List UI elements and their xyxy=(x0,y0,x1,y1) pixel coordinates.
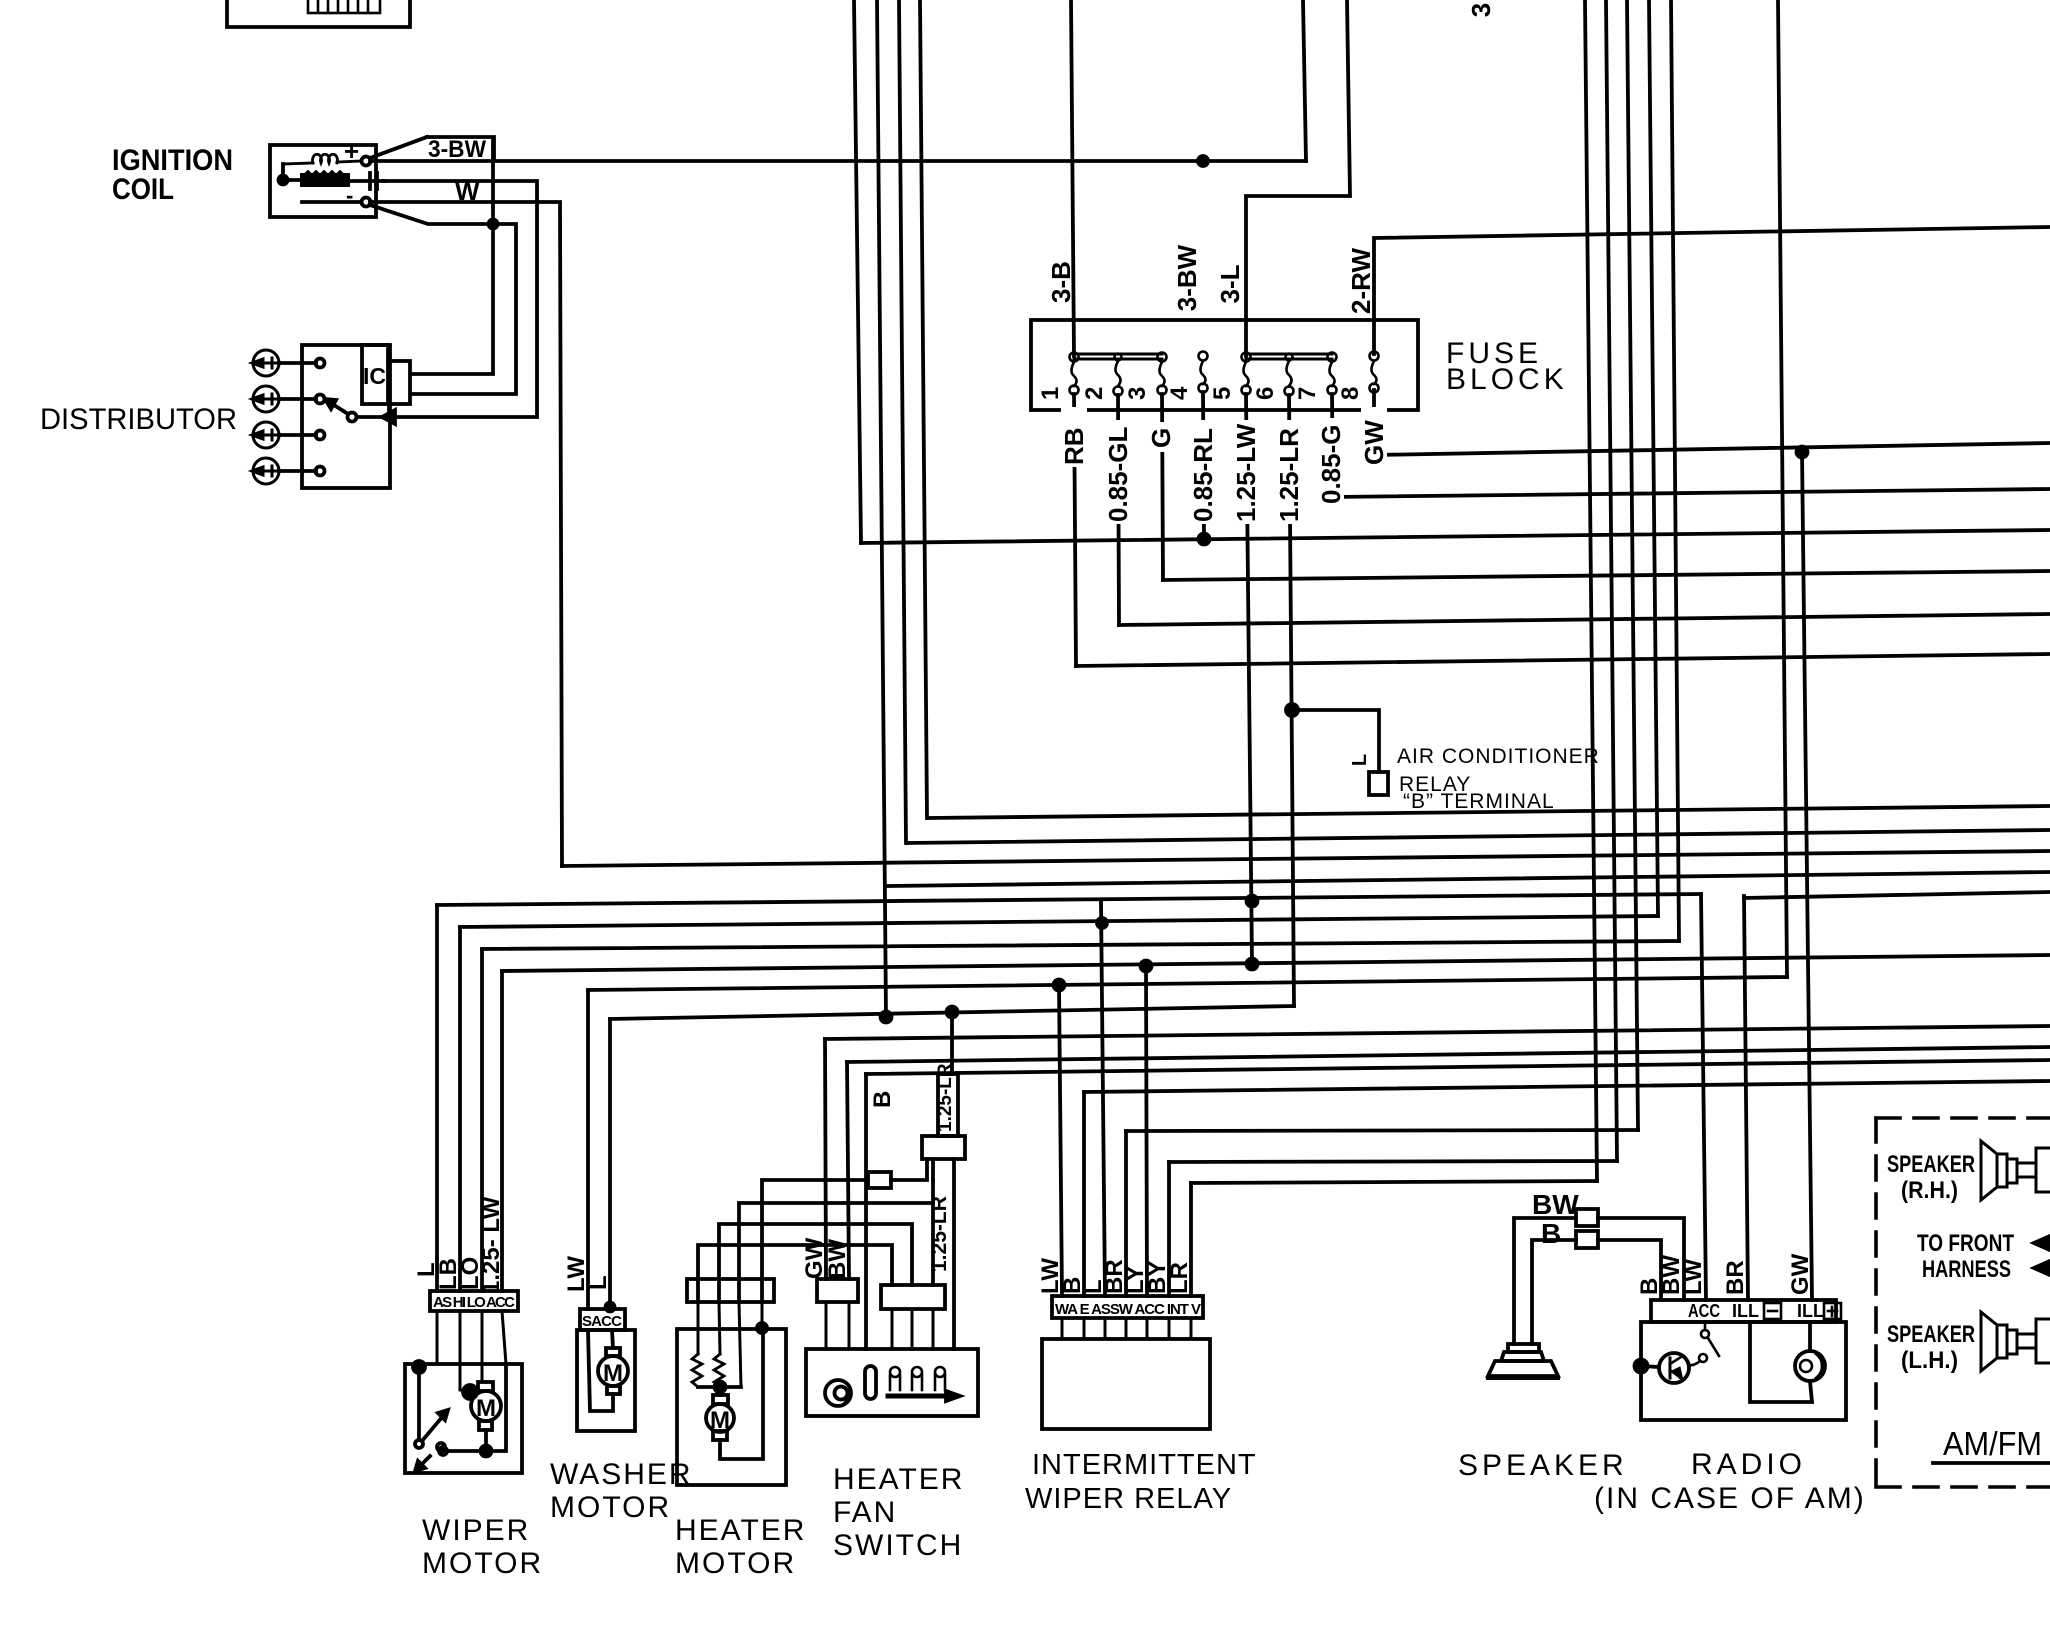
junction wiper bottom xyxy=(481,1446,492,1457)
svg-text:(R.H.): (R.H.) xyxy=(1901,1177,1958,1204)
bus line L16b xyxy=(866,1060,2050,1074)
svg-text:BW: BW xyxy=(824,1239,851,1279)
wiper switch common wire xyxy=(417,1367,421,1440)
fuse numbers 1-8 xyxy=(1037,386,1364,400)
label IGNITION COIL xyxy=(112,144,233,206)
svg-text:HEATER: HEATER xyxy=(833,1463,964,1496)
wire AC relay branch xyxy=(1292,710,1379,772)
svg-text:5: 5 xyxy=(1209,387,1236,400)
svg-text:2: 2 xyxy=(1081,387,1108,400)
speaker RH icon xyxy=(1981,1141,2050,1200)
svg-text:1.25-LR: 1.25-LR xyxy=(928,1196,951,1272)
label HEATER MOTOR xyxy=(675,1514,806,1580)
label B heater xyxy=(869,1091,896,1108)
speaker LH icon xyxy=(1981,1312,2050,1371)
harness arrow 1 xyxy=(2034,1236,2050,1250)
label 3-B xyxy=(1046,261,1076,303)
label TO FRONT HARNESS xyxy=(1917,1230,2014,1283)
svg-text:GW: GW xyxy=(1787,1253,1814,1295)
heater resistor bus xyxy=(698,1385,741,1389)
radio ACC switch xyxy=(1704,1322,1707,1330)
fan switch rotary symbol xyxy=(825,1380,851,1406)
svg-text:TO FRONT: TO FRONT xyxy=(1917,1230,2014,1257)
wire W from minus terminal xyxy=(370,202,562,866)
fan switch contact 3 xyxy=(935,1367,945,1390)
minus terminal xyxy=(346,183,353,208)
wire 3-L from top to fuse 5 xyxy=(1246,0,1350,356)
svg-text:WASHER: WASHER xyxy=(550,1458,693,1491)
coil middle terminal capacitor symbol xyxy=(351,179,384,183)
svg-text:HARNESS: HARNESS xyxy=(1922,1256,2011,1283)
svg-text:MOTOR: MOTOR xyxy=(422,1547,543,1580)
svg-text:BLOCK: BLOCK xyxy=(1446,363,1568,396)
fan switch contact 1 xyxy=(890,1367,900,1390)
fuse 1 xyxy=(1070,353,1079,395)
radio pin labels xyxy=(1636,1253,1814,1295)
wire B box to horn xyxy=(1532,1240,1576,1344)
wire fuse6 1.25-LR down xyxy=(1289,395,1294,1006)
heater motor connector xyxy=(687,1279,774,1302)
wire radio GW vertical xyxy=(1802,452,1812,1300)
wire fuse1 RB down xyxy=(1074,394,1076,666)
right connector stubs xyxy=(892,1309,933,1349)
heater switch GW BW connector xyxy=(817,1279,858,1302)
coil secondary winding xyxy=(301,171,349,186)
label AIR CONDITIONER RELAY B TERMINAL xyxy=(1397,745,1600,813)
svg-text:IC: IC xyxy=(363,363,386,389)
wiper motor bottom wire xyxy=(443,1430,486,1451)
svg-text:4: 4 xyxy=(1166,386,1193,400)
junction heater bus xyxy=(715,1382,726,1393)
fan switch contact 2 xyxy=(912,1367,922,1390)
svg-text:COIL: COIL xyxy=(112,173,174,206)
heater internal pin wires xyxy=(698,1302,762,1387)
fan switch capsule xyxy=(865,1366,876,1399)
wire relay BR to top xyxy=(1126,1130,1638,1131)
bus line B8 xyxy=(502,955,2050,971)
heater fan switch box xyxy=(806,1349,978,1416)
fuse 4 xyxy=(1199,352,1208,393)
spark plug 2 xyxy=(252,386,279,412)
distributor box xyxy=(302,345,390,488)
wire wiper ACC down xyxy=(500,971,504,1291)
junction fuse5 LW on B5 line xyxy=(1247,896,1258,907)
svg-text:SPEAKER: SPEAKER xyxy=(1887,1321,1975,1348)
wire bundle vertical R6 from top xyxy=(1778,0,1787,977)
wire relay B vertical xyxy=(1082,1092,1086,1296)
svg-text:AIR CONDITIONER: AIR CONDITIONER xyxy=(1397,745,1600,768)
svg-text:WIPER RELAY: WIPER RELAY xyxy=(1025,1483,1232,1515)
ILL minus box xyxy=(1764,1303,1781,1319)
relay connector strip xyxy=(1052,1296,1203,1318)
junction dot on IC wire xyxy=(489,220,498,229)
label GW heater xyxy=(801,1237,828,1279)
label WASHER MOTOR xyxy=(550,1458,693,1524)
fuse block right edge implied by label xyxy=(1446,337,1568,396)
svg-text:3-L: 3-L xyxy=(1215,264,1245,303)
svg-text:LW: LW xyxy=(1680,1259,1707,1295)
spark plug 4 xyxy=(252,458,279,484)
wire fuse2 0.85-GL down xyxy=(1118,395,1119,625)
fuse 8 xyxy=(1370,352,1379,393)
wire fuse3 G down xyxy=(1162,394,1163,580)
wire middle terminal to distributor xyxy=(384,181,537,417)
terminal 2 xyxy=(316,395,325,404)
label BW speaker xyxy=(1532,1189,1579,1220)
wiper motor M xyxy=(471,1391,501,1421)
wire bundle vertical R4 from top xyxy=(1649,0,1658,916)
washer internal left wire xyxy=(588,1330,613,1411)
spark plug 1 xyxy=(252,350,279,376)
wire IC power branch xyxy=(412,140,493,374)
svg-text:RADIO: RADIO xyxy=(1691,1448,1806,1481)
junction fuse4 on A1 xyxy=(1199,534,1210,545)
wiper right internal wire xyxy=(486,1364,506,1451)
svg-text:ILL: ILL xyxy=(1797,1301,1824,1321)
wire wide connector left pin down xyxy=(931,1159,935,1285)
bus line A4 xyxy=(1076,654,2050,666)
svg-text:L: L xyxy=(585,1275,612,1290)
svg-text:WIPER: WIPER xyxy=(422,1514,530,1547)
wire relay LR to top xyxy=(1191,1181,1597,1183)
label 3-BW vertical xyxy=(1172,244,1202,311)
svg-text:L: L xyxy=(1349,754,1371,766)
wire bundle vertical V4 from top xyxy=(920,0,927,818)
wire fuse5 1.25-LW down xyxy=(1246,394,1252,964)
bus line B9 xyxy=(588,977,1787,990)
wire L14 tap down to wide connector xyxy=(950,1012,954,1074)
svg-text:+: + xyxy=(344,136,359,166)
svg-text:SWITCH: SWITCH xyxy=(833,1529,963,1562)
heater pin4 wire staircase xyxy=(762,1180,868,1302)
junction radio left edge xyxy=(1635,1360,1648,1373)
junction heater 1.25-LR tap on L14 xyxy=(947,1007,958,1018)
wire bundle vertical V2 from top xyxy=(877,0,886,1017)
fuse bus bar 1-3 xyxy=(1074,354,1162,359)
washer motor top wire xyxy=(612,1330,613,1348)
wiper park arrow xyxy=(421,1456,430,1465)
wiper switch contact a xyxy=(415,1440,423,1448)
radio lamp xyxy=(1795,1351,1825,1381)
wire B box to radio xyxy=(1598,1240,1661,1300)
AC relay terminal box xyxy=(1369,772,1388,795)
hatched connector inside partial box xyxy=(308,0,380,13)
label INTERMITTENT WIPER RELAY xyxy=(1025,1449,1257,1515)
label LB wiper xyxy=(435,1258,462,1290)
label SPEAKER LH xyxy=(1887,1321,1975,1374)
fuse row box xyxy=(1031,320,1418,410)
junction relay LY on B8 xyxy=(1141,961,1152,972)
svg-text:1.25- LW: 1.25- LW xyxy=(478,1196,505,1294)
svg-text:B: B xyxy=(869,1091,896,1108)
svg-text:AM/FM: AM/FM xyxy=(1943,1425,2042,1462)
wire relay LW vertical xyxy=(1059,985,1062,1296)
wire plug2 xyxy=(279,397,316,401)
label L washer xyxy=(585,1275,612,1290)
heater motor M xyxy=(718,1387,722,1395)
wire wiper LO down xyxy=(480,949,484,1291)
svg-text:HEATER: HEATER xyxy=(675,1514,806,1547)
coil case junction dot xyxy=(279,176,288,185)
bus line B6 xyxy=(460,916,1658,927)
wire radio LW vertical xyxy=(1701,894,1706,1300)
svg-text:6: 6 xyxy=(1252,387,1279,400)
wire relay BR vertical xyxy=(1124,1131,1128,1296)
junction heater pin4 top xyxy=(757,1323,767,1333)
wire relay BY to top xyxy=(1169,1161,1617,1162)
wire wiper LB down xyxy=(458,927,462,1291)
svg-text:MOTOR: MOTOR xyxy=(550,1491,671,1524)
junction GW to radio column xyxy=(1797,447,1808,458)
speaker horn xyxy=(1508,1344,1539,1352)
fuse block bottom edge wire GW xyxy=(1374,390,2050,455)
junction relay L on B6 xyxy=(1097,918,1107,928)
label LW washer xyxy=(563,1256,590,1292)
svg-text:“B” TERMINAL: “B” TERMINAL xyxy=(1403,790,1555,813)
wire bundle vertical V3 from top xyxy=(899,0,906,843)
wire wiper L down xyxy=(435,905,439,1291)
fuse 7 xyxy=(1328,353,1337,395)
wire bundle vertical V1 from top xyxy=(854,0,861,543)
label BW heater xyxy=(824,1239,851,1279)
svg-text:2-RW: 2-RW xyxy=(1346,248,1376,314)
wire 3-BW vertical to top xyxy=(1303,0,1306,161)
wiper connector AS HI LO ACC xyxy=(430,1291,518,1311)
heater pin1 wire staircase xyxy=(698,1245,892,1302)
junction relay LW on B9 xyxy=(1054,980,1065,991)
wire relay L vertical xyxy=(1101,902,1105,1296)
stub label cut at top xyxy=(1466,3,1496,17)
AM FM dashed box xyxy=(1876,1118,2050,1487)
relay connector stubs xyxy=(1062,1318,1191,1339)
svg-text:7: 7 xyxy=(1294,387,1321,400)
heater pin3 wire staircase xyxy=(739,1203,933,1302)
GW BW stubs into switch xyxy=(826,1302,849,1349)
svg-text:M: M xyxy=(603,1360,623,1387)
svg-text:3: 3 xyxy=(1466,3,1496,17)
label 2-RW xyxy=(1346,248,1376,314)
wire fuse7 0.85-G down and right xyxy=(1332,394,2050,497)
wire washer L down xyxy=(608,1019,612,1309)
junction V2 on L14 xyxy=(881,1012,892,1023)
label 1.25-LR vertical xyxy=(928,1196,951,1272)
wire washer LW down xyxy=(586,990,590,1309)
svg-text:BR: BR xyxy=(1722,1260,1749,1295)
bus line B2 xyxy=(907,830,2050,843)
IC connector box xyxy=(389,361,410,404)
label HEATER FAN SWITCH xyxy=(833,1463,964,1562)
bus line L17 xyxy=(1084,1081,2050,1092)
fuse 2 xyxy=(1114,354,1123,396)
fuse output labels xyxy=(1059,407,1389,524)
svg-text:BW: BW xyxy=(1532,1189,1579,1220)
label W xyxy=(455,176,480,206)
svg-text:1.25-LW: 1.25-LW xyxy=(1231,423,1261,522)
radio transistor xyxy=(1659,1353,1689,1383)
bus line B5 xyxy=(437,894,1701,905)
wire relay LY vertical xyxy=(1146,966,1147,1296)
svg-text:INTERMITTENT: INTERMITTENT xyxy=(1032,1449,1257,1481)
fan switch selector bar xyxy=(888,1394,946,1399)
svg-text:0.85-RL: 0.85-RL xyxy=(1188,428,1218,522)
svg-text:LR: LR xyxy=(1166,1262,1193,1294)
svg-text:(IN CASE OF AM): (IN CASE OF AM) xyxy=(1594,1482,1866,1515)
fuse 6 xyxy=(1285,354,1294,396)
junction fuse5 LW end on B8 xyxy=(1247,959,1258,970)
svg-text:1: 1 xyxy=(1037,387,1064,400)
fuse block outer top edge wire 2-RW xyxy=(1374,227,2050,354)
bus line to radio BR xyxy=(1744,892,2050,898)
heater motor loop wire xyxy=(720,1329,763,1459)
junction 3-BW fuse4 xyxy=(1198,156,1208,166)
heater pin2 wire staircase xyxy=(719,1224,912,1302)
svg-text:3-B: 3-B xyxy=(1046,261,1076,303)
heater inline connector small xyxy=(868,1172,891,1188)
wire heater switch BW xyxy=(847,1062,849,1279)
svg-text:-: - xyxy=(346,183,353,208)
svg-text:3: 3 xyxy=(1124,387,1151,400)
svg-text:ILL: ILL xyxy=(1732,1301,1759,1321)
IC box xyxy=(362,345,388,404)
relay wire labels xyxy=(1037,1258,1193,1294)
label AM FM xyxy=(1943,1425,2042,1462)
wire bundle vertical R1 from top xyxy=(1585,0,1597,1181)
terminal 3 xyxy=(316,431,325,440)
plus terminal xyxy=(344,136,359,166)
wire bundle vertical R5 from top xyxy=(1671,0,1679,941)
wire bundle vertical R3 from top xyxy=(1627,0,1638,1130)
label B speaker xyxy=(1541,1218,1561,1249)
wire small connector to wide connector xyxy=(891,1159,927,1180)
distributor rotor xyxy=(348,413,357,422)
bus line A3 xyxy=(1119,614,2050,625)
junction on wiper box top xyxy=(413,1361,425,1373)
heater switch right connector xyxy=(881,1285,945,1309)
wire relay BY vertical xyxy=(1167,1162,1171,1296)
label DISTRIBUTOR xyxy=(40,403,237,436)
label L at AC terminal xyxy=(1349,754,1371,766)
label L wiper xyxy=(413,1262,440,1277)
washer motor M xyxy=(598,1356,628,1386)
svg-text:RB: RB xyxy=(1059,427,1089,465)
svg-text:SPEAKER: SPEAKER xyxy=(1458,1449,1628,1482)
svg-text:DISTRIBUTOR: DISTRIBUTOR xyxy=(40,403,237,436)
ignition coil T1 box xyxy=(270,145,376,217)
heater resistor 1 xyxy=(692,1354,702,1387)
svg-text:MOTOR: MOTOR xyxy=(675,1547,796,1580)
intermittent wiper relay box xyxy=(1042,1339,1210,1429)
terminal 1 xyxy=(316,359,325,368)
wire bundle vertical R2 from top xyxy=(1606,0,1617,1161)
wire plug1 xyxy=(279,361,316,365)
harness arrow 2 xyxy=(2034,1261,2050,1275)
label IN CASE OF AM xyxy=(1594,1482,1866,1515)
terminal 4 xyxy=(316,467,325,476)
svg-text:B: B xyxy=(1541,1218,1561,1249)
wire plug4 xyxy=(279,469,316,473)
heater motor box xyxy=(677,1329,786,1485)
wire fuse4 0.85-RL down xyxy=(1203,392,1204,539)
heater resistor 2 xyxy=(714,1354,724,1387)
bus line A1 xyxy=(861,530,2050,543)
radio connector strip xyxy=(1651,1300,1836,1322)
svg-text:SACC: SACC xyxy=(582,1313,622,1330)
svg-text:G: G xyxy=(1146,428,1176,448)
svg-text:ACC: ACC xyxy=(1688,1301,1720,1321)
bus line B7 xyxy=(482,941,1679,949)
wire minus slant to IC xyxy=(370,205,516,394)
label flag 3-BW xyxy=(370,137,427,158)
svg-text:3-BW: 3-BW xyxy=(1172,244,1202,311)
svg-text:(L.H.): (L.H.) xyxy=(1901,1347,1958,1374)
junction washer L at connector xyxy=(606,1303,615,1312)
svg-text:1.25-LR: 1.25-LR xyxy=(1274,428,1304,522)
wiper switch contact b xyxy=(437,1443,445,1451)
svg-text:WA E ASSW ACC INT V: WA E ASSW ACC INT V xyxy=(1055,1301,1201,1318)
wire heater switch GW xyxy=(825,1039,826,1279)
svg-text:AS HI LO ACC: AS HI LO ACC xyxy=(433,1294,515,1311)
bus line B3 wire W xyxy=(562,851,2050,866)
wiper switch arm xyxy=(422,1416,443,1441)
speaker BW inline connector xyxy=(1576,1209,1598,1226)
radio lamp loop xyxy=(1750,1322,1812,1402)
label SPEAKER RH xyxy=(1887,1151,1975,1204)
bus line L16 xyxy=(847,1047,2050,1062)
bus line L15 xyxy=(825,1026,2050,1039)
label RADIO xyxy=(1691,1448,1806,1481)
bus line B4 xyxy=(886,872,2050,886)
wire 3-BW coil to fuse area xyxy=(370,159,1306,163)
washer motor box xyxy=(577,1330,635,1431)
wire radio BR vertical xyxy=(1744,896,1748,1300)
wire plug3 xyxy=(279,433,316,437)
svg-text:0.85-GL: 0.85-GL xyxy=(1103,427,1133,522)
bus line L14 xyxy=(610,1006,1294,1019)
label LO wiper xyxy=(457,1257,484,1290)
heater 1.25-LR label box xyxy=(938,1074,958,1136)
fuse bus bar 5-7 xyxy=(1246,354,1332,359)
bus line B1 xyxy=(928,806,2050,818)
svg-text:M: M xyxy=(476,1395,496,1422)
svg-text:0.85-G: 0.85-G xyxy=(1316,425,1346,505)
heater wide inline connector xyxy=(922,1136,965,1159)
arrowhead into distributor rotor junction xyxy=(382,410,395,424)
label WIPER MOTOR xyxy=(422,1514,543,1580)
wiper connector stubs xyxy=(437,1311,506,1390)
speaker B inline connector xyxy=(1576,1231,1598,1248)
fuse 3 xyxy=(1158,353,1167,395)
coil primary winding xyxy=(283,154,361,164)
label 1.25-LW wiper xyxy=(478,1196,505,1294)
svg-text:FAN: FAN xyxy=(833,1496,897,1529)
radio box xyxy=(1641,1322,1846,1420)
fuse 5 xyxy=(1242,353,1251,395)
junction AC branch on 1.25-LR xyxy=(1286,704,1298,716)
ILL plus box xyxy=(1824,1303,1841,1319)
wire 3-B vertical from top to fuse 1 xyxy=(1071,0,1074,356)
wire BW box to radio xyxy=(1598,1218,1684,1300)
partial component box top-left xyxy=(227,0,410,27)
svg-text:8: 8 xyxy=(1337,387,1364,400)
wiper motor box xyxy=(405,1364,522,1473)
wire heater switch B xyxy=(864,1074,868,1349)
wire BW box to horn xyxy=(1514,1218,1576,1344)
wire relay LR vertical xyxy=(1189,1183,1193,1296)
washer connector SACC xyxy=(580,1309,625,1330)
svg-text:SPEAKER: SPEAKER xyxy=(1887,1151,1975,1178)
svg-text:3-BW: 3-BW xyxy=(428,136,486,163)
bus line A2 xyxy=(1163,571,2050,580)
